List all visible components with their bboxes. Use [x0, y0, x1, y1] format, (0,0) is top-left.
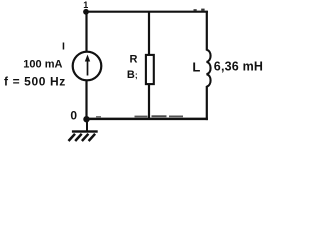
- junction dot node 1: [83, 9, 89, 15]
- svg-text:L: L: [192, 60, 200, 75]
- current source I: [73, 52, 102, 81]
- wire bottom horizontal: [87, 118, 208, 121]
- smudge artifacts bottom wire: [135, 116, 148, 118]
- svg-text:0: 0: [70, 109, 77, 123]
- svg-text:B;: B;: [127, 69, 138, 81]
- wire left vertical bottom: [85, 80, 87, 120]
- wire top horizontal: [86, 11, 208, 13]
- wire left vertical top: [85, 12, 87, 52]
- resistor R: [146, 55, 154, 84]
- svg-text:R: R: [130, 53, 138, 65]
- wire resistor branch top: [148, 12, 150, 55]
- wire resistor branch bottom: [148, 85, 150, 120]
- ground: [86, 120, 88, 131]
- svg-text:I: I: [62, 40, 65, 52]
- inductor L: [207, 50, 211, 87]
- smudge artifacts top wire: [194, 9, 197, 11]
- svg-text:1: 1: [83, 0, 88, 10]
- junction dot node 0: [83, 116, 89, 122]
- wire right vertical top: [206, 11, 208, 51]
- svg-text:6,36 mH: 6,36 mH: [214, 60, 263, 74]
- wire right vertical bottom: [206, 86, 208, 120]
- svg-text:100 mA: 100 mA: [23, 59, 62, 71]
- svg-text:f = 500 Hz: f = 500 Hz: [4, 75, 66, 89]
